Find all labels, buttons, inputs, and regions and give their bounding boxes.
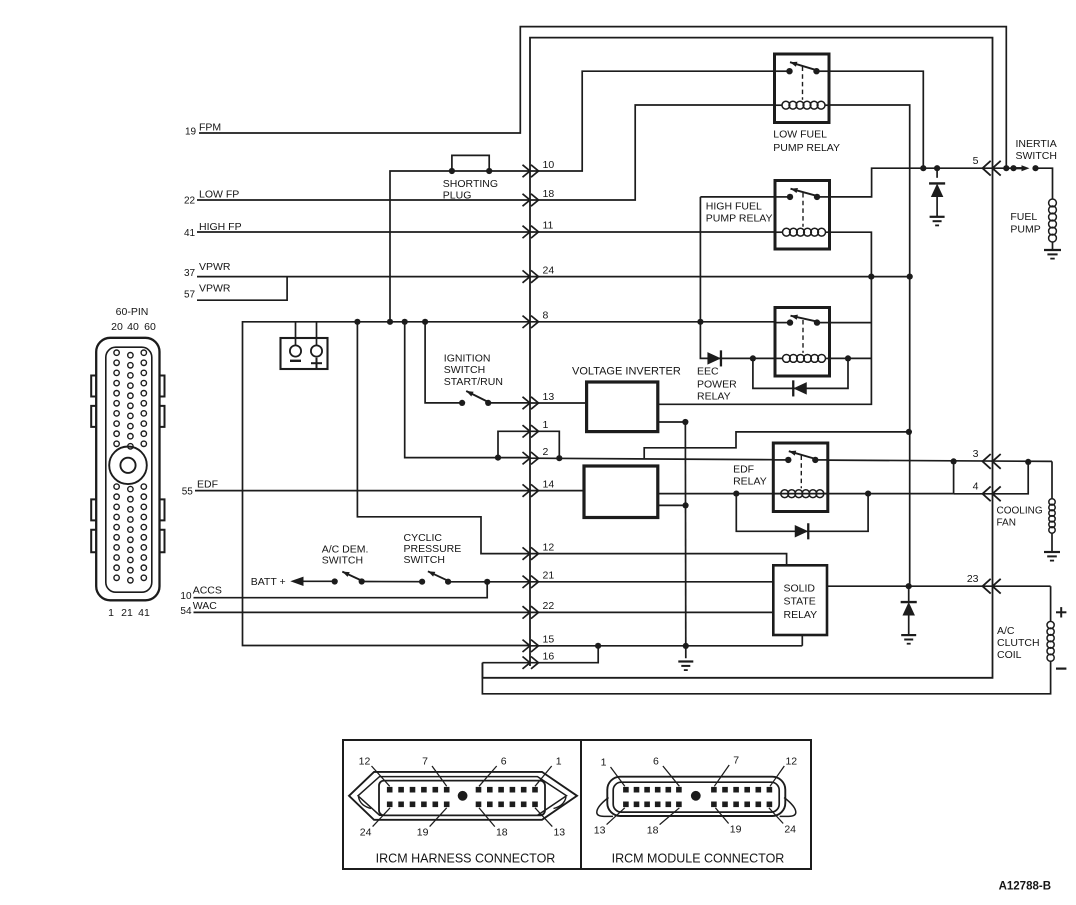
svg-text:HIGH FUEL: HIGH FUEL	[706, 201, 762, 213]
svg-text:19: 19	[417, 827, 429, 839]
svg-text:SWITCH: SWITCH	[404, 554, 445, 566]
svg-text:37: 37	[184, 268, 196, 279]
svg-text:HIGH FP: HIGH FP	[199, 221, 242, 233]
svg-text:VPWR: VPWR	[199, 283, 231, 295]
svg-text:13: 13	[553, 827, 565, 839]
svg-text:54: 54	[180, 606, 192, 617]
svg-text:RELAY: RELAY	[784, 609, 818, 621]
svg-text:LOW FUEL: LOW FUEL	[773, 129, 827, 141]
svg-text:5: 5	[973, 155, 979, 167]
svg-text:EDF: EDF	[733, 463, 754, 475]
svg-text:23: 23	[967, 573, 979, 585]
svg-text:60-PIN: 60-PIN	[116, 306, 149, 318]
svg-text:12: 12	[543, 541, 555, 553]
svg-text:1: 1	[556, 756, 562, 768]
svg-text:40: 40	[127, 321, 139, 333]
svg-text:18: 18	[647, 825, 659, 837]
svg-text:IRCM MODULE CONNECTOR: IRCM MODULE CONNECTOR	[612, 851, 785, 865]
svg-text:18: 18	[543, 188, 555, 200]
svg-text:FUEL: FUEL	[1010, 211, 1037, 223]
svg-text:SHORTING: SHORTING	[443, 178, 498, 190]
svg-text:7: 7	[422, 756, 428, 768]
svg-text:CLUTCH: CLUTCH	[997, 637, 1040, 649]
svg-text:3: 3	[973, 448, 979, 460]
svg-text:ACCS: ACCS	[193, 585, 222, 597]
svg-text:SWITCH: SWITCH	[322, 555, 363, 567]
svg-text:55: 55	[182, 486, 194, 497]
svg-text:COIL: COIL	[997, 649, 1022, 661]
svg-text:FPM: FPM	[199, 122, 221, 134]
svg-text:RELAY: RELAY	[697, 391, 731, 403]
svg-text:2: 2	[543, 446, 549, 458]
svg-text:24: 24	[360, 827, 372, 839]
svg-text:19: 19	[730, 824, 742, 836]
svg-text:LOW FP: LOW FP	[199, 189, 239, 201]
svg-text:SWITCH: SWITCH	[444, 364, 485, 376]
svg-text:INERTIA: INERTIA	[1016, 138, 1057, 150]
svg-text:57: 57	[184, 290, 196, 301]
svg-text:COOLING: COOLING	[997, 506, 1043, 517]
svg-text:10: 10	[180, 591, 192, 602]
svg-text:FAN: FAN	[997, 517, 1016, 528]
svg-text:6: 6	[653, 756, 659, 768]
svg-text:A/C: A/C	[997, 625, 1015, 637]
svg-text:21: 21	[543, 570, 555, 582]
svg-text:13: 13	[594, 825, 606, 837]
svg-text:19: 19	[185, 127, 197, 138]
svg-text:41: 41	[138, 607, 150, 619]
svg-text:60: 60	[144, 321, 156, 333]
svg-text:6: 6	[501, 756, 507, 768]
svg-text:4: 4	[973, 481, 979, 493]
svg-text:EEC: EEC	[697, 366, 719, 378]
svg-text:SWITCH: SWITCH	[1016, 150, 1057, 162]
svg-text:BATT +: BATT +	[251, 576, 286, 588]
svg-text:7: 7	[733, 755, 739, 767]
svg-text:START/RUN: START/RUN	[444, 376, 503, 388]
svg-text:11: 11	[543, 220, 554, 232]
svg-text:WAC: WAC	[193, 600, 218, 612]
svg-text:10: 10	[543, 159, 555, 171]
svg-text:15: 15	[543, 634, 555, 646]
svg-text:A12788-B: A12788-B	[999, 881, 1051, 893]
svg-text:IGNITION: IGNITION	[444, 353, 491, 365]
svg-text:24: 24	[784, 824, 796, 836]
svg-text:16: 16	[543, 651, 555, 663]
svg-text:SOLID: SOLID	[784, 583, 816, 595]
svg-text:PUMP RELAY: PUMP RELAY	[773, 142, 840, 154]
svg-text:14: 14	[543, 478, 555, 490]
svg-text:STATE: STATE	[784, 596, 816, 608]
svg-text:21: 21	[121, 607, 133, 619]
svg-text:18: 18	[496, 827, 508, 839]
svg-text:RELAY: RELAY	[733, 475, 767, 487]
svg-text:1: 1	[601, 757, 607, 769]
svg-text:12: 12	[785, 756, 797, 768]
svg-text:PUMP RELAY: PUMP RELAY	[706, 213, 773, 225]
svg-text:41: 41	[184, 228, 196, 239]
svg-text:8: 8	[543, 310, 549, 322]
svg-text:VPWR: VPWR	[199, 261, 231, 273]
svg-text:PUMP: PUMP	[1010, 223, 1040, 235]
svg-text:24: 24	[543, 264, 555, 276]
svg-text:13: 13	[543, 391, 555, 403]
svg-text:1: 1	[543, 419, 549, 431]
svg-text:POWER: POWER	[697, 379, 737, 391]
svg-text:VOLTAGE INVERTER: VOLTAGE INVERTER	[572, 366, 681, 378]
svg-text:20: 20	[111, 321, 123, 333]
svg-text:IRCM HARNESS CONNECTOR: IRCM HARNESS CONNECTOR	[376, 851, 556, 865]
svg-text:22: 22	[184, 196, 196, 207]
svg-text:22: 22	[543, 600, 555, 612]
svg-text:1: 1	[108, 607, 114, 619]
svg-text:12: 12	[359, 756, 371, 768]
svg-text:EDF: EDF	[197, 479, 218, 491]
svg-text:PLUG: PLUG	[443, 190, 472, 202]
